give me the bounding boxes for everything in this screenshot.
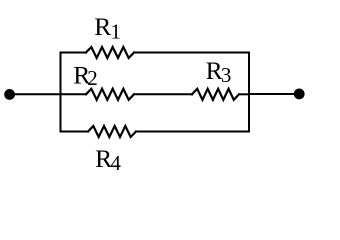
svg-text:2: 2 xyxy=(87,66,98,90)
svg-text:R: R xyxy=(94,12,111,41)
wire top branch left segment xyxy=(61,52,87,54)
terminal dot right xyxy=(294,89,305,100)
svg-text:1: 1 xyxy=(111,19,122,43)
wire top branch right segment xyxy=(134,52,249,54)
resistor R1 xyxy=(86,47,134,58)
resistor R2 xyxy=(86,89,134,100)
resistor R3 xyxy=(192,89,239,100)
wire right vertical bus xyxy=(248,53,250,132)
wire right lead to terminal B xyxy=(249,93,299,95)
terminal dot left xyxy=(4,89,15,100)
wire bottom branch right segment xyxy=(136,131,249,133)
wire left vertical bus xyxy=(60,53,62,132)
resistor R4 xyxy=(88,126,136,137)
wire middle branch right segment to right node xyxy=(239,93,249,95)
svg-text:4: 4 xyxy=(110,151,121,175)
svg-text:3: 3 xyxy=(221,63,232,87)
wire left lead from terminal A to left node xyxy=(10,93,61,95)
wire bottom branch left segment xyxy=(61,131,89,133)
wire middle branch left segment xyxy=(61,93,87,95)
wire middle branch center segment xyxy=(134,93,192,95)
